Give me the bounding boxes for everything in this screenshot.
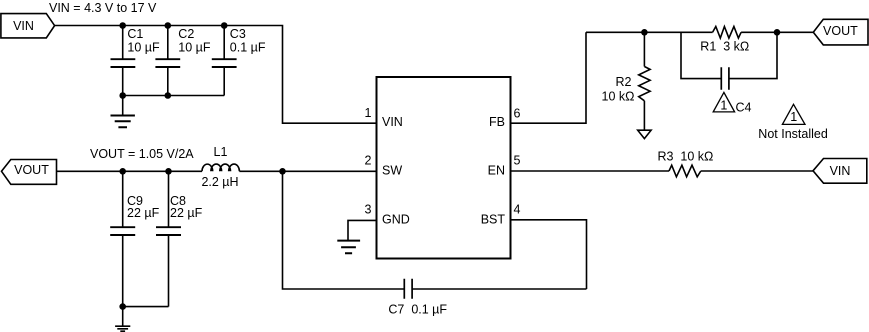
capacitor C7 — [404, 279, 412, 299]
svg-text:4: 4 — [514, 203, 521, 217]
junction SW to bootstrap loop — [279, 168, 286, 175]
svg-text:0.1 µF: 0.1 µF — [230, 41, 266, 55]
wire FB pin up to feedback rail — [511, 32, 587, 123]
ground below output caps — [115, 307, 130, 332]
ground triangle below R2 — [638, 130, 651, 138]
svg-text:1: 1 — [365, 106, 372, 120]
port VIN right — [813, 159, 867, 184]
junction C8 top — [165, 168, 172, 175]
svg-text:VOUT: VOUT — [823, 24, 858, 38]
svg-text:L1: L1 — [214, 145, 228, 159]
ground at GND pin — [337, 241, 360, 254]
not-installed marker triangle 1 at C4 — [713, 92, 734, 112]
svg-text:10 kΩ: 10 kΩ — [602, 90, 635, 104]
port VIN top-left — [1, 14, 55, 38]
svg-text:FB: FB — [489, 115, 505, 129]
svg-text:SW: SW — [382, 163, 402, 177]
inductor L1 — [202, 164, 239, 171]
wire R1 to VOUT port — [741, 31, 813, 33]
capacitor C1 — [111, 26, 136, 96]
svg-text:VOUT: VOUT — [14, 163, 49, 177]
svg-text:2: 2 — [365, 153, 372, 167]
svg-text:R3 10 kΩ: R3 10 kΩ — [658, 149, 714, 163]
junction C1 top — [119, 22, 126, 29]
resistor R3 — [669, 165, 701, 177]
resistor R1 — [713, 27, 742, 39]
svg-text:Not Installed: Not Installed — [758, 127, 828, 141]
svg-text:R2: R2 — [616, 75, 632, 89]
resistor R2 — [639, 32, 650, 130]
junction C1 bottom — [119, 92, 126, 99]
svg-text:3: 3 — [365, 203, 372, 217]
svg-text:GND: GND — [382, 213, 410, 227]
svg-text:VIN = 4.3 V to 17 V: VIN = 4.3 V to 17 V — [49, 1, 157, 15]
wire C8 bottom to C9 bottom — [123, 306, 169, 308]
svg-text:R1 3 kΩ: R1 3 kΩ — [700, 39, 749, 53]
capacitor C9 — [110, 171, 135, 306]
wire L1 to IC SW pin — [239, 170, 377, 172]
port VOUT bottom-left — [2, 160, 57, 185]
not-installed marker triangle 1 legend — [782, 104, 805, 124]
svg-text:C4: C4 — [736, 101, 752, 115]
wire C4 branch left — [681, 32, 721, 78]
svg-text:2.2 µH: 2.2 µH — [201, 175, 238, 189]
wire EN pin to R3 — [511, 170, 670, 172]
wire top-left rail to IC VIN pin — [55, 26, 377, 124]
svg-text:1: 1 — [720, 98, 727, 112]
svg-text:VOUT = 1.05 V/2A: VOUT = 1.05 V/2A — [90, 147, 194, 161]
svg-text:C1: C1 — [127, 27, 143, 41]
svg-text:22 µF: 22 µF — [170, 206, 203, 220]
svg-text:10 µF: 10 µF — [127, 41, 160, 55]
svg-text:BST: BST — [481, 213, 506, 227]
wire bootstrap rail left of C7 — [283, 171, 405, 289]
wire BST pin down to bootstrap rail — [511, 220, 587, 289]
svg-text:VIN: VIN — [382, 115, 403, 129]
wire bottom rail of input caps — [123, 95, 225, 97]
wire bootstrap rail right of C7 — [413, 288, 587, 290]
junction C3 top — [221, 22, 228, 29]
svg-text:5: 5 — [514, 153, 521, 167]
capacitor C4 — [721, 67, 729, 90]
capacitor C3 — [212, 26, 237, 96]
junction C2 top — [165, 22, 172, 29]
wire feedback rail to R1 — [586, 31, 713, 33]
wire R3 to VIN port — [701, 170, 813, 172]
IC U1 regulator body — [377, 77, 511, 259]
svg-text:10 µF: 10 µF — [178, 41, 211, 55]
svg-text:VIN: VIN — [13, 19, 34, 33]
svg-text:VIN: VIN — [830, 164, 851, 178]
junction C9 top — [119, 168, 126, 175]
svg-text:EN: EN — [488, 163, 505, 177]
wire VOUT rail to L1 — [57, 170, 203, 172]
junction C9 bottom — [119, 303, 126, 310]
svg-text:C3: C3 — [230, 27, 246, 41]
wire C4 branch right — [729, 32, 777, 78]
junction C2 bottom — [165, 92, 172, 99]
svg-text:6: 6 — [514, 106, 521, 120]
svg-text:22 µF: 22 µF — [127, 206, 160, 220]
wire GND pin to ground — [348, 220, 377, 240]
port VOUT top-right — [813, 19, 868, 45]
junction R2 top — [641, 29, 648, 36]
capacitor C2 — [155, 26, 180, 96]
ground below input caps — [111, 96, 135, 128]
capacitor C8 — [156, 171, 181, 306]
svg-text:1: 1 — [790, 110, 797, 124]
junction R1/C4 right — [774, 29, 781, 36]
svg-text:C2: C2 — [178, 27, 194, 41]
svg-text:C7 0.1 µF: C7 0.1 µF — [388, 303, 447, 317]
